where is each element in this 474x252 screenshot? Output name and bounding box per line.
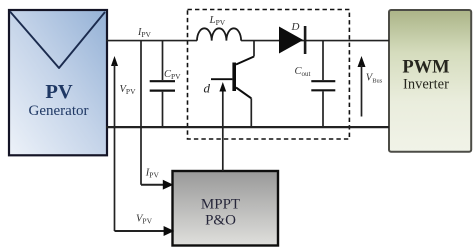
Vpv sense wire into MPPT: [115, 226, 175, 236]
label Cout: [295, 66, 311, 78]
PV panel chevron mark: [10, 12, 105, 69]
svg-text:Generator: Generator: [29, 103, 89, 119]
Ipv sense wire into MPPT: [141, 41, 173, 190]
MPPT controller label text: [201, 197, 240, 229]
label Lpv: [209, 14, 226, 27]
label Ipv lower: [145, 168, 160, 180]
svg-text:IPV: IPV: [145, 168, 160, 180]
diode D: [279, 26, 306, 54]
label d: [204, 80, 211, 95]
svg-text:D: D: [291, 21, 300, 33]
wire: top bus inductor to PWM inverter: [241, 40, 389, 42]
svg-text:LPV: LPV: [209, 14, 226, 27]
svg-text:Inverter: Inverter: [403, 76, 449, 92]
svg-text:VPV: VPV: [120, 84, 137, 96]
PWM inverter label text: [402, 58, 449, 93]
PV generator label text: [29, 81, 89, 119]
svg-text:VPV: VPV: [136, 214, 153, 226]
svg-text:P&O: P&O: [205, 213, 236, 229]
svg-text:Cout: Cout: [295, 66, 311, 78]
svg-text:d: d: [204, 80, 211, 95]
label Cpv: [164, 69, 181, 81]
svg-text:IPV: IPV: [137, 27, 152, 39]
gate drive wire d from MPPT: [219, 82, 226, 171]
label Vbus: [366, 73, 383, 85]
svg-text:VBus: VBus: [366, 73, 383, 85]
IGBT switch Q1: [211, 41, 254, 127]
label D: [291, 21, 300, 33]
Vpv measurement arrow: [111, 56, 118, 231]
svg-text:CPV: CPV: [164, 69, 181, 81]
wire: top bus PV to inductor: [106, 40, 197, 42]
svg-text:PV: PV: [45, 81, 73, 103]
wire: bottom bus PV to PWM inverter: [106, 126, 389, 128]
svg-text:PWM: PWM: [402, 58, 449, 78]
capacitor Cout: [311, 41, 335, 127]
MPPT P&O controller block U1: [173, 171, 279, 246]
label Vpv upper: [120, 84, 137, 96]
inductor Lpv: [197, 28, 241, 40]
PV generator block: [9, 10, 107, 155]
Vbus measurement arrow: [358, 56, 366, 117]
capacitor Cpv: [150, 41, 175, 127]
label Ipv upper: [137, 27, 152, 39]
svg-text:MPPT: MPPT: [201, 197, 240, 213]
label Vpv lower: [136, 214, 153, 226]
PWM inverter block: [389, 10, 471, 152]
dashed boundary of boost converter: [188, 10, 350, 140]
